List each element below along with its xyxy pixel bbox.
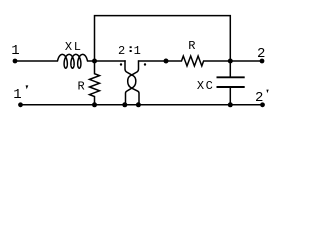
inductor XL: [58, 54, 88, 68]
junction dot capacitor bottom: [228, 102, 233, 107]
transformer T1 secondary winding: [128, 60, 139, 105]
svg-text:R: R: [188, 39, 195, 53]
transformer phasing dot right: [144, 63, 146, 65]
capacitor XC bottom plate: [217, 86, 245, 88]
wire top bypass rail: [95, 16, 231, 61]
junction dot transformer left leg: [122, 102, 127, 107]
svg-text:L: L: [74, 40, 81, 54]
transformer T1 primary winding: [125, 60, 136, 105]
wire terminal 1 to XL: [15, 60, 58, 62]
wire node A to transformer: [95, 60, 126, 62]
svg-text:1: 1: [134, 44, 141, 58]
node B dot: [164, 59, 169, 64]
wire transformer to node B: [139, 60, 167, 62]
node A junction dot: [92, 59, 97, 64]
svg-text:X: X: [197, 79, 204, 93]
svg-text:1: 1: [11, 43, 19, 59]
resistor R series: [166, 56, 230, 66]
wire XL to node A: [87, 60, 95, 62]
resistor R shunt: [90, 61, 100, 105]
node C junction dot: [228, 59, 233, 64]
wire node C to capacitor: [229, 61, 231, 77]
wire capacitor to bottom rail: [229, 87, 231, 105]
wire bottom rail: [21, 104, 263, 106]
junction dot R shunt bottom: [92, 102, 97, 107]
svg-text:2: 2: [118, 44, 125, 58]
node 2-prime terminal dot: [260, 102, 265, 107]
junction dot transformer right leg: [136, 102, 141, 107]
node 2 terminal dot: [260, 59, 265, 64]
transformer phasing dot left: [120, 63, 122, 65]
svg-text:X: X: [65, 40, 72, 54]
capacitor XC top plate: [217, 76, 245, 78]
node 1 terminal dot: [13, 59, 18, 64]
svg-text:2: 2: [255, 90, 263, 106]
node 1-prime terminal dot: [18, 102, 23, 107]
svg-text:2: 2: [257, 46, 265, 62]
svg-text:R: R: [77, 80, 84, 94]
wire node C to terminal 2: [230, 60, 262, 62]
svg-text:C: C: [206, 79, 213, 93]
svg-text:1: 1: [13, 87, 21, 103]
